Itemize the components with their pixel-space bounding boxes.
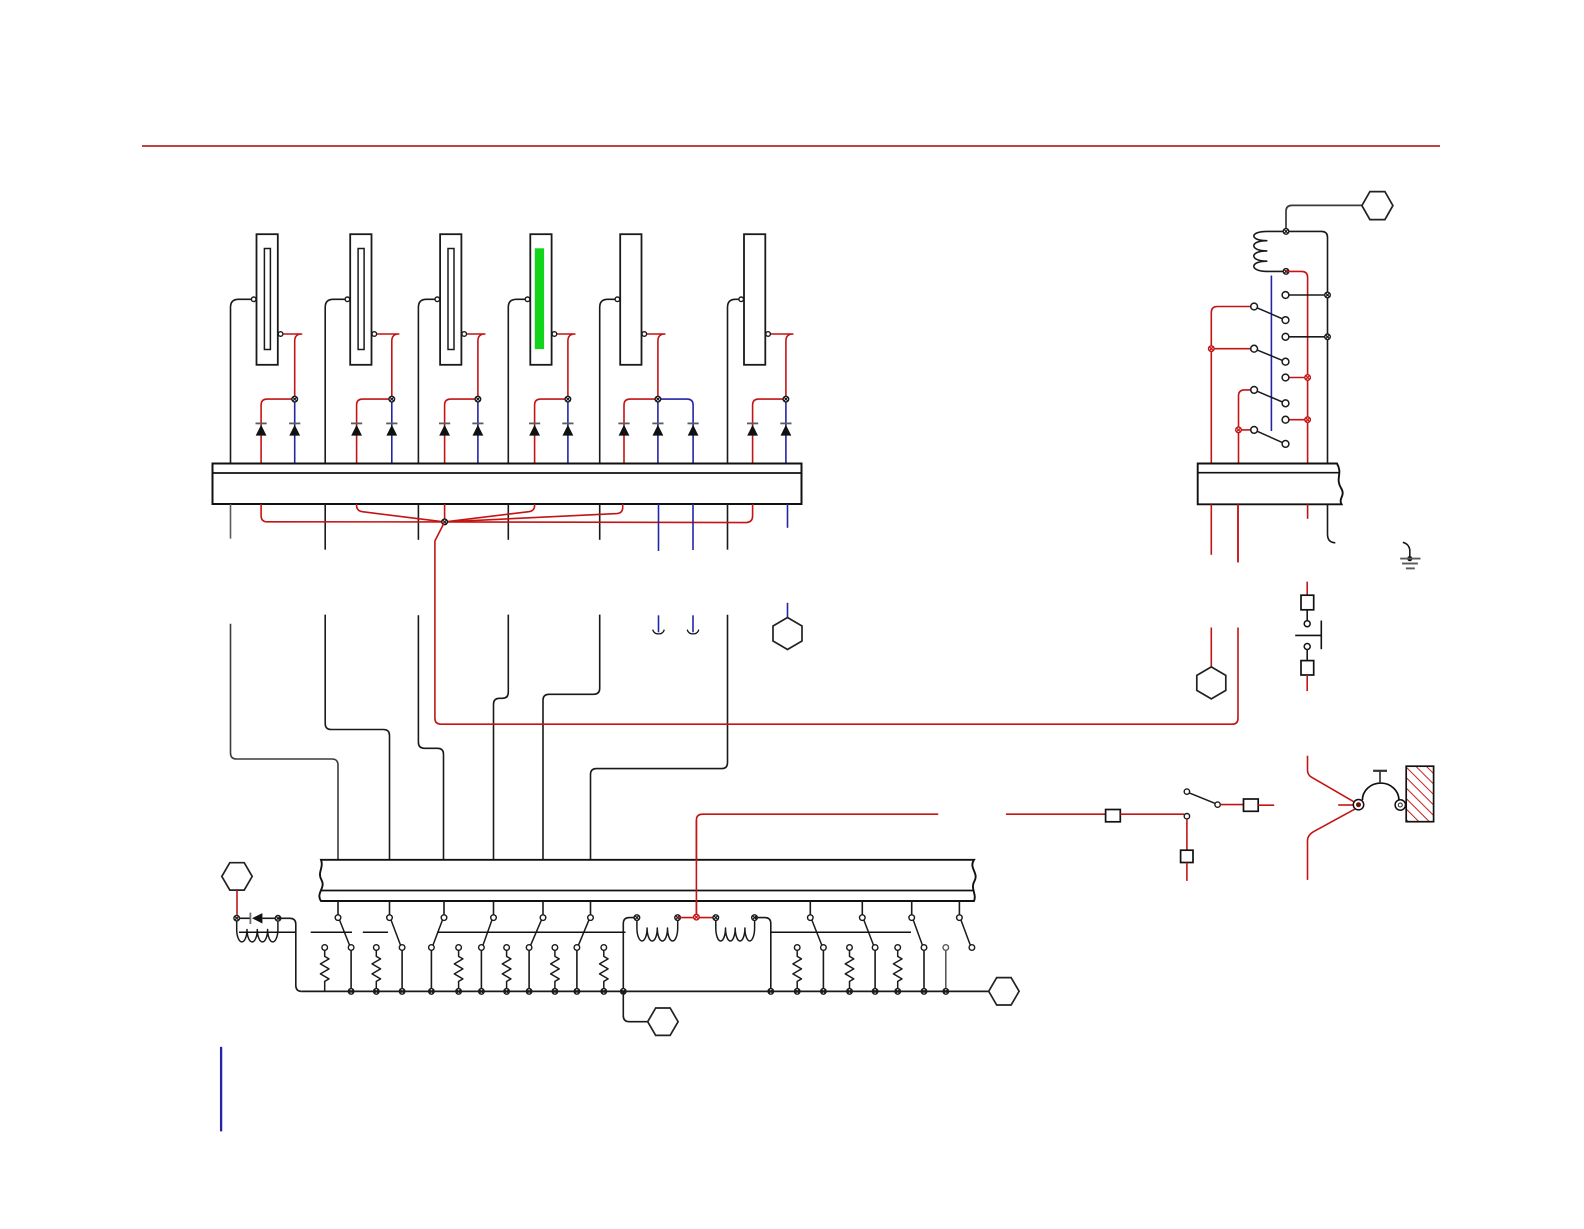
switch S13 moving contact — [1184, 789, 1189, 794]
wire: S5 to ground rail — [528, 950, 530, 991]
junction: suppressor right — [275, 916, 281, 922]
diode D1b — [289, 423, 300, 435]
wire: I4 splice to diode D4a — [535, 399, 568, 463]
suppressor coil L1 — [237, 918, 278, 942]
wire: D5a leg to common splice — [445, 504, 623, 522]
wire: M1 to bus K-bus pin1 — [1211, 307, 1251, 464]
junction: R9 rail — [895, 989, 901, 995]
wire: stub above connector F4 — [1306, 582, 1308, 596]
wire: F2 stub — [1186, 863, 1188, 881]
wire: bus J2 stub S3 — [443, 901, 445, 915]
diode D4a — [529, 423, 540, 435]
wire: coil top to ground line riser — [1286, 231, 1328, 463]
wire: bus J2 stub S4 — [493, 901, 495, 915]
wire: injector I3 pin1 to bus J1 — [418, 299, 435, 463]
relay moving contact M2 — [1251, 345, 1258, 352]
wire: suppressor right link — [262, 917, 278, 919]
wire: coil bottom red riser — [1286, 271, 1308, 463]
wire: J3 ground pin — [1328, 504, 1336, 543]
wire: harness run (I2 circuit) to bus J2 — [325, 615, 389, 860]
junction: I4 splice — [565, 396, 571, 402]
wire: bus J2 stub S9 — [911, 901, 913, 915]
junction: R7 rail — [794, 989, 800, 995]
distributor cap block (hatched) — [1406, 766, 1433, 822]
wire: bus J2 stub S1 — [337, 901, 339, 915]
inline connector F2 — [1181, 850, 1193, 862]
junction: S9 rail — [921, 989, 927, 995]
relay contact A1 — [1282, 292, 1289, 299]
switch S10 blade — [961, 920, 970, 945]
wire: rail riser to coil L2 — [623, 918, 637, 992]
switch S7 moving contact — [821, 945, 827, 951]
injector I1 pin 2 — [278, 332, 283, 337]
relay contact B4 — [1282, 441, 1289, 448]
relay contact blade 3 — [1257, 391, 1282, 402]
wire: common splice feed to relay bus (long red) — [435, 522, 1238, 724]
junction: S3 rail — [429, 989, 435, 995]
relay armature bar (blue) — [1270, 276, 1272, 432]
injector I5 pin 2 — [642, 332, 647, 337]
wire: harness run (I5 circuit) to bus J2 — [543, 615, 600, 860]
wire: S8 to ground rail — [874, 950, 876, 991]
junction: I1 splice — [292, 396, 298, 402]
diode D2a — [351, 423, 362, 435]
wire: I6 splice to diode D6b — [785, 399, 787, 463]
wire: bus J2 stub S5 — [542, 901, 544, 915]
relay contact A2 — [1282, 333, 1289, 340]
wire: L3 to ground rail — [755, 918, 771, 992]
wire: harness run (I1 circuit) to bus J2 — [231, 624, 339, 860]
wire: bus J1 pin to harness (I1 circuit) upper — [230, 504, 232, 539]
junction: S1 rail — [348, 989, 354, 995]
junction: M2 splice — [1209, 346, 1215, 352]
diode D5a — [618, 423, 629, 435]
injector I5 body — [620, 234, 641, 365]
page divider rule — [142, 145, 1440, 147]
wire: injector I6 pin1 to bus J1 — [728, 299, 739, 463]
wire: I2 splice to diode D2b — [391, 399, 393, 463]
page edge mark (blue) — [220, 1047, 222, 1132]
junction: suppressor left — [234, 915, 240, 921]
wire: S7 to ground rail — [822, 950, 824, 991]
diode D6b — [780, 423, 791, 435]
wire: M3 to bus K-bus pin2 — [1239, 390, 1251, 464]
wire: M4 to pin2 riser — [1239, 429, 1251, 431]
switch S4 moving contact — [479, 945, 485, 951]
linkage line segment — [437, 931, 625, 933]
resistor R8 — [847, 945, 853, 951]
resistor R5 — [552, 945, 558, 951]
diode D6a — [747, 423, 758, 435]
diode D3a — [439, 423, 450, 435]
wire: bus J2 stub S10 — [958, 901, 960, 915]
switch S14 upper contact — [1304, 621, 1310, 627]
wire: bus J2 stub S6 — [590, 901, 592, 915]
wire: S1 to ground rail — [350, 950, 352, 991]
wire: suppressor to ground rail — [278, 918, 302, 991]
junction: A2 riser splice — [1325, 334, 1331, 340]
wire: S4 to ground rail — [480, 950, 482, 991]
relay contact B1 — [1282, 317, 1289, 324]
junction: A3 red splice — [1305, 375, 1311, 381]
wire: injector I1 pin2 red lead — [283, 334, 302, 399]
wire: bus J1 pin to harness (I4 circuit) upper — [507, 504, 509, 540]
wire: relay bus red pin lower stub — [1237, 504, 1239, 562]
injector I6 body — [744, 234, 765, 365]
wire: harness run (I6 circuit) to bus J2 — [591, 615, 728, 860]
wire: injector I5 pin1 to bus J1 — [600, 299, 615, 463]
wire: I1 splice to diode D1b — [294, 399, 296, 463]
wire: I5 splice to diode D5c — [658, 399, 693, 463]
injector I3 body — [440, 234, 461, 365]
junction: R8 rail — [847, 989, 853, 995]
wire: D5c stub below bus J1 — [692, 504, 694, 550]
junction: L2 left — [634, 915, 640, 921]
cap electrode E2 — [1395, 800, 1405, 810]
switch S1 blade — [340, 920, 350, 945]
wire: rotor feed lower — [1308, 808, 1357, 880]
injector I5 pin 1 — [615, 297, 620, 302]
junction: S2 rail — [399, 989, 405, 995]
junction: R6 rail — [601, 989, 607, 995]
switch S5 blade — [531, 920, 542, 945]
wire: J3 pin1 stub — [1210, 504, 1212, 555]
switch S6 blade — [579, 920, 589, 945]
switch S4 blade — [483, 920, 492, 945]
junction: I6 splice — [783, 396, 789, 402]
switch S3 moving contact — [429, 945, 435, 951]
wire: injector I4 pin1 to bus J1 — [508, 299, 525, 463]
wire: injector I2 pin1 to bus J1 — [325, 299, 345, 463]
injector I1 pin 1 — [251, 297, 256, 302]
switch S6 fixed contact — [588, 915, 594, 921]
relay contact blade 4 — [1257, 431, 1282, 442]
injector I3 pin 2 — [462, 332, 467, 337]
wire: D6b stub below bus J1 — [787, 504, 789, 528]
off-page arrow (blue) — [687, 615, 699, 634]
switch S8 moving contact — [872, 945, 878, 951]
wire: connector C3 to relay coil — [1286, 205, 1362, 231]
wire: stub below connector F5 — [1306, 675, 1308, 691]
switch S7 blade — [812, 920, 822, 945]
wire: S2 to ground rail — [401, 950, 403, 991]
inline connector F5 — [1301, 661, 1314, 675]
wire: rotor feed upper — [1308, 756, 1357, 804]
injector I1 body — [257, 234, 278, 365]
switch S13 common terminal — [1184, 814, 1189, 819]
junction: M4 splice — [1236, 427, 1242, 433]
diode D2b — [386, 423, 397, 435]
wire: ignition feed crossing bus J2 — [695, 820, 697, 917]
resistor R2 — [374, 945, 380, 951]
injector I6 pin 2 — [766, 332, 771, 337]
wire: S3 to ground rail — [430, 950, 432, 991]
wire: I5 splice to diode D5b — [657, 399, 659, 463]
injector I1 slot — [264, 249, 270, 350]
wire: stub to connector C2 — [787, 603, 789, 618]
wire: D2a leg to common splice — [357, 504, 445, 522]
junction: R4 rail — [504, 989, 510, 995]
junction: I2 splice — [389, 396, 395, 402]
linkage line segment — [363, 931, 388, 933]
junction: coil bottom splice — [1283, 269, 1289, 275]
wire: coil splice feed riser — [696, 814, 938, 917]
resistor R1 — [322, 945, 328, 951]
connector C2 (hex) — [773, 618, 802, 650]
resistor R4 — [504, 945, 510, 951]
wire: contact A1 to riser — [1289, 294, 1328, 296]
junction: coil top splice — [1283, 229, 1289, 235]
junction: L2 rail — [621, 989, 627, 995]
injector I2 slot — [358, 249, 364, 350]
diode D5c — [688, 423, 699, 435]
relay contact B3 — [1282, 400, 1289, 407]
wire: rotor feed stub — [1338, 804, 1353, 806]
ground lead — [1403, 542, 1410, 556]
wire: D3a leg to common splice — [444, 504, 446, 522]
rotor handle — [1373, 771, 1387, 783]
injector I2 pin 1 — [345, 297, 350, 302]
injector I4 pin 2 — [552, 332, 557, 337]
linkage line segment — [239, 931, 296, 933]
wire: C5 stub — [236, 890, 238, 915]
wire: J3 red pin stub — [1307, 504, 1309, 519]
relay contact B2 — [1282, 358, 1289, 365]
wire: I2 splice to diode D2a — [357, 399, 392, 463]
relay contact A3 — [1282, 374, 1289, 381]
inline connector F4 — [1301, 595, 1314, 610]
switch S13 throw terminal — [1215, 802, 1220, 807]
connector bus J1 — [213, 464, 802, 505]
injector I6 pin 1 — [739, 297, 744, 302]
wire: injector I3 pin2 red lead — [467, 334, 485, 399]
wire: F3 stub — [1258, 804, 1274, 806]
connector C4 (hex) — [1197, 667, 1226, 699]
connector C7 (hex) — [989, 978, 1019, 1005]
wire: S13 to connector F2 — [1186, 819, 1188, 850]
resistor R3 — [456, 945, 462, 951]
wire: injector I5 pin2 red lead — [647, 334, 665, 399]
wire: bus J1 pin to harness (I5 circuit) upper — [599, 504, 601, 540]
junction: feed tee — [694, 914, 700, 920]
wire: bus J1 pin to harness (I6 circuit) upper — [727, 504, 729, 550]
wire: harness run (I3 circuit) to bus J2 — [418, 615, 443, 860]
switch S2 fixed contact — [387, 915, 393, 921]
switch S4 fixed contact — [491, 915, 497, 921]
diode D5b — [652, 423, 663, 435]
wire: D6a leg to common splice — [445, 504, 753, 523]
wire: L2 to L3 (red link) — [678, 917, 716, 919]
switch S6 moving contact — [574, 945, 580, 951]
injector I2 body — [350, 234, 371, 365]
resistor R7 — [794, 945, 800, 951]
wire: suppressor left link — [237, 917, 251, 919]
rotor electrode E1 — [1353, 800, 1363, 810]
wire: D4a leg to common splice — [445, 504, 535, 522]
junction: R3 rail — [456, 989, 462, 995]
inline connector F1 — [1106, 810, 1121, 822]
junction: S6 rail — [574, 989, 580, 995]
switch S14 lower contact — [1304, 644, 1310, 650]
junction: L2 right — [675, 915, 681, 921]
connector C6 (hex) — [648, 1008, 678, 1035]
ballast coil L2 — [637, 918, 678, 941]
switch S14 plunger — [1295, 621, 1321, 650]
diode D3b — [472, 423, 483, 435]
wire: D1a leg to common splice — [261, 504, 445, 522]
ground rail — [302, 990, 989, 992]
connector C5 (hex) — [222, 863, 252, 890]
wire: injector I2 pin2 red lead — [377, 334, 399, 399]
relay moving contact M4 — [1251, 427, 1258, 434]
injector I3 pin 1 — [435, 297, 440, 302]
junction: L3 rail — [768, 989, 774, 995]
wire: injector I1 pin1 to bus J1 — [231, 299, 252, 463]
diode D1a — [256, 423, 267, 435]
switch S1 moving contact — [348, 945, 354, 951]
relay moving contact M3 — [1251, 387, 1258, 394]
switch S13 blade — [1189, 793, 1215, 804]
wire: I3 splice to diode D3a — [445, 399, 478, 463]
junction: S5 rail — [526, 989, 532, 995]
switch S8 fixed contact — [860, 915, 866, 921]
switch S9 moving contact — [921, 945, 927, 951]
wire: S14 to connector F5 — [1306, 650, 1308, 661]
wire: S9 to ground rail — [923, 950, 925, 991]
spark arc — [1362, 783, 1399, 800]
switch S5 fixed contact — [540, 915, 546, 921]
wire: bus J2 stub S7 — [809, 901, 811, 915]
linkage line segment — [311, 931, 352, 933]
wire: F1 to switch S13 — [1120, 813, 1184, 815]
junction: R2 rail — [374, 989, 380, 995]
switch S8 blade — [864, 920, 874, 945]
switch S10 fixed contact — [957, 915, 963, 921]
wire: S6 to ground rail — [576, 950, 578, 991]
junction: A1 riser splice — [1325, 292, 1331, 298]
injector I2 pin 2 — [372, 332, 377, 337]
wire: I5 splice to diode D5a — [624, 399, 658, 463]
wire: harness run (I4 circuit) to bus J2 — [494, 615, 509, 860]
sense lead (gray) — [943, 945, 949, 992]
junction: L3 left — [713, 915, 719, 921]
inline connector F3 — [1244, 799, 1259, 811]
injector I4 pin 1 — [525, 297, 530, 302]
switch S9 fixed contact — [909, 915, 915, 921]
wire: pin1 to connector C4 — [1210, 628, 1212, 667]
switch S5 moving contact — [526, 945, 532, 951]
wire: bus J1 pin to harness (I2 circuit) upper — [324, 504, 326, 550]
resistor R9 — [895, 945, 901, 951]
switch S7 fixed contact — [808, 915, 814, 921]
injector I3 slot — [448, 249, 454, 350]
ballast coil L3 — [716, 918, 755, 941]
relay contact blade 2 — [1257, 350, 1282, 360]
relay moving contact M1 — [1251, 303, 1258, 310]
relay coil K1 — [1254, 231, 1286, 271]
suppressor diode D7 — [250, 913, 262, 924]
connector bus J3 — [1198, 464, 1343, 505]
ground — [1400, 559, 1420, 569]
wire: rail to connector C6 — [623, 991, 647, 1021]
connector C3 (hex) — [1362, 192, 1393, 220]
wire: F4 to switch S14 — [1306, 610, 1308, 621]
junction: ground splice — [1407, 556, 1412, 561]
wire: injector I6 pin2 red lead — [770, 334, 793, 399]
wire: bus J2 stub S2 — [389, 901, 391, 915]
junction: I3 splice — [475, 396, 481, 402]
wire: I6 splice to diode D6a — [753, 399, 786, 463]
wire: contact A4 to red riser — [1289, 419, 1308, 421]
wire: S13 throw to connector F3 — [1220, 804, 1243, 806]
wire: I3 splice to diode D3b — [477, 399, 479, 463]
junction: S4 rail — [479, 989, 485, 995]
switch S1 fixed contact — [335, 915, 341, 921]
wire: J3 pin2 stub — [1237, 504, 1239, 562]
switch S9 blade — [913, 920, 922, 945]
junction: R5 rail — [552, 989, 558, 995]
wire: contact A2 to riser — [1289, 336, 1328, 338]
wire: contact A3 to red riser — [1289, 377, 1308, 379]
junction: L3 right — [752, 915, 758, 921]
switch S2 moving contact — [399, 945, 405, 951]
switch S2 blade — [391, 920, 400, 945]
junction: A4 red splice — [1305, 417, 1311, 423]
injector I4 body — [530, 234, 551, 365]
switch S3 blade — [433, 920, 442, 945]
junction: I5 splice — [655, 396, 661, 402]
wire: bus J2 stub S8 — [861, 901, 863, 915]
resistor R6 — [601, 945, 607, 951]
relay contact blade 1 — [1257, 308, 1282, 319]
injector I4 green level bar — [535, 248, 544, 349]
junction: S8 rail — [872, 989, 878, 995]
connector bus J2 — [319, 860, 975, 901]
diode D4b — [562, 423, 573, 435]
wire: ignition feed segment — [1006, 813, 1106, 815]
wire: I4 splice to diode D4b — [567, 399, 569, 463]
wire: I1 splice to diode D1a — [261, 399, 295, 463]
wire: M2 to pin1 riser — [1211, 348, 1251, 350]
junction: S7 rail — [821, 989, 827, 995]
off-page arrow (blue) — [653, 615, 665, 634]
switch S3 fixed contact — [441, 915, 447, 921]
junction: sense rail — [943, 989, 949, 995]
wire: injector I4 pin2 red lead — [557, 334, 575, 399]
junction: common red splice — [442, 519, 448, 525]
wire: bus J1 pin to harness (I3 circuit) upper — [417, 504, 419, 540]
wire: D5b stub below bus J1 — [658, 504, 660, 551]
linkage line segment — [771, 931, 911, 933]
relay contact A4 — [1282, 416, 1289, 423]
switch S10 moving contact — [969, 945, 975, 951]
